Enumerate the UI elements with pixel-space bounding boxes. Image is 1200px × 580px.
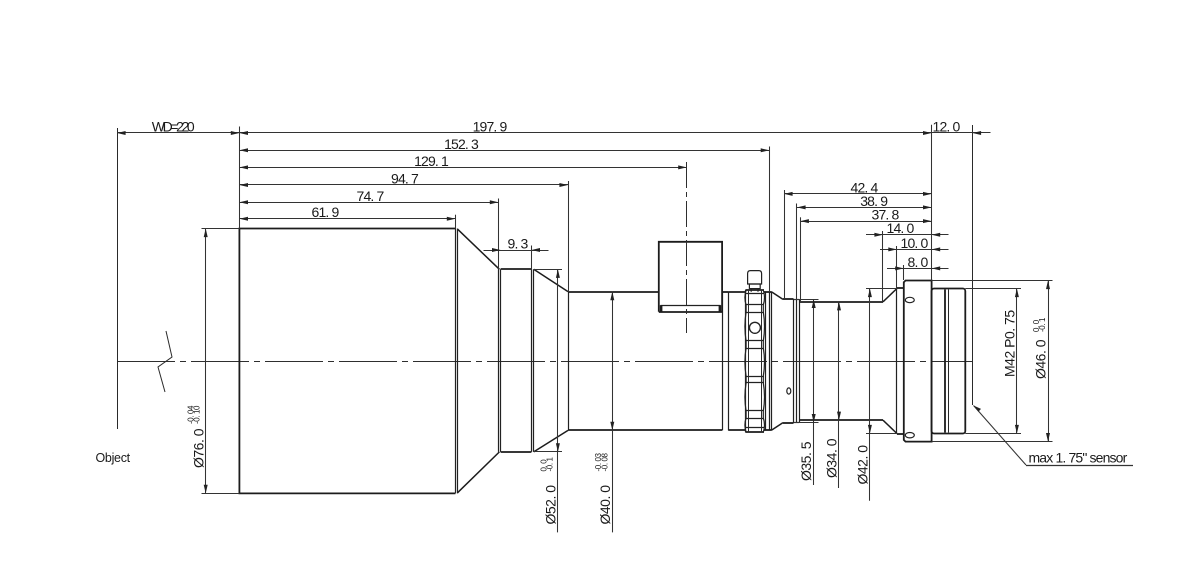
- svg-text:WD=220: WD=220: [152, 119, 195, 135]
- dimension O34 line: [838, 302, 840, 488]
- O35.5 section top edge: [783, 298, 794, 300]
- svg-text:61. 9: 61. 9: [312, 204, 340, 220]
- break squiggle on object line: [158, 331, 172, 392]
- extension line 152.3: [769, 147, 771, 292]
- svg-text:max 1. 75" sensor: max 1. 75" sensor: [1029, 450, 1128, 466]
- cone O52 to O40 bottom slant: [534, 430, 568, 452]
- extension line 9.3 right: [531, 246, 533, 270]
- M42 thread cylinder: [932, 289, 966, 434]
- svg-text:74. 7: 74. 7: [357, 188, 385, 204]
- svg-text:Ø42. 0: Ø42. 0: [854, 445, 870, 485]
- lock ring top/bottom edges: [794, 299, 800, 301]
- svg-text:Ø52. 0: Ø52. 0: [543, 485, 559, 525]
- O42 cylinder: [896, 289, 898, 434]
- mount flange O46: [904, 281, 932, 442]
- ring B vertical: [745, 290, 747, 432]
- M42 extension lines: [965, 288, 1021, 290]
- O35.5 section right vertical: [793, 299, 795, 422]
- svg-text:152. 3: 152. 3: [444, 136, 479, 152]
- svg-text:Object: Object: [96, 451, 131, 465]
- svg-text:M42 P0. 75: M42 P0. 75: [1001, 310, 1017, 377]
- svg-text:-0. 08: -0. 08: [601, 452, 610, 471]
- extension line 94.7: [568, 181, 570, 291]
- dimension 129.1: [239, 167, 686, 169]
- connector block bottom lip: [659, 311, 722, 313]
- sensor plane line: [972, 125, 974, 405]
- svg-text:10. 0: 10. 0: [901, 235, 929, 251]
- set screw hole on O34 barrel: [787, 388, 791, 394]
- extension line 42.4: [784, 190, 786, 299]
- extension line 61.9: [455, 215, 457, 229]
- dimension 12.0: [932, 132, 973, 134]
- dimension O52 line: [557, 269, 559, 532]
- M42 thread relief lines: [944, 290, 946, 433]
- centerline horizontal axis: [117, 361, 973, 363]
- dimension 8.0: [887, 268, 932, 270]
- ring bottom edge 722-745: [728, 429, 745, 431]
- extension lines O52: [534, 269, 562, 271]
- dimension WD=220: [117, 132, 239, 134]
- extension line 74.7: [498, 199, 500, 270]
- extension line 14.0: [882, 231, 884, 301]
- O52 section left edge pair: [498, 269, 500, 452]
- svg-text:197. 9: 197. 9: [473, 119, 508, 135]
- O42 extension lines: [866, 288, 897, 290]
- dimension 37.8: [800, 221, 931, 223]
- chamfer O34 to O42 bottom: [883, 420, 897, 433]
- cone O52 to O40 top slant: [534, 269, 568, 291]
- O40 barrel start vertical: [568, 292, 570, 431]
- dimension 38.9: [797, 207, 932, 209]
- O40 barrel top edge: [568, 291, 659, 293]
- flange hole top: [905, 297, 914, 302]
- svg-text:94. 7: 94. 7: [391, 171, 419, 187]
- dimension O35.5 line: [813, 299, 815, 485]
- dimension 94.7: [239, 184, 568, 186]
- dimension O40 line: [612, 292, 614, 533]
- dimension 9.3: [484, 250, 549, 252]
- svg-text:-0. 1: -0. 1: [546, 457, 555, 472]
- O40 barrel end face: [722, 292, 724, 431]
- spacer top edge: [764, 291, 772, 293]
- knurled focus ring: [745, 289, 764, 291]
- O35.5 section bottom edge: [783, 422, 794, 424]
- O40 barrel top edge right of block: [722, 291, 728, 293]
- svg-text:Ø34. 0: Ø34. 0: [824, 438, 840, 478]
- svg-text:9. 3: 9. 3: [508, 236, 529, 252]
- spacer bottom edge: [764, 429, 772, 431]
- dimension 74.7: [239, 202, 498, 204]
- dimension 14.0: [866, 234, 932, 236]
- flange hole bottom: [905, 433, 914, 438]
- chamfer O34 to O42 top: [883, 289, 897, 302]
- extension line left face: [239, 127, 241, 229]
- O52 section bottom edge: [501, 451, 532, 453]
- connector block outline: [659, 242, 722, 312]
- connector block centerline (129.1 reference): [686, 162, 688, 333]
- svg-text:14. 0: 14. 0: [887, 220, 915, 236]
- O35.5 extension lines: [794, 299, 819, 301]
- svg-text:Ø46. 0: Ø46. 0: [1033, 339, 1049, 379]
- vertical at 771.6: [771, 292, 773, 431]
- dimension 61.9: [239, 218, 455, 220]
- spacer ring A vertical: [728, 292, 730, 431]
- dimension O76 line: [205, 229, 207, 494]
- svg-text:Ø76. 0: Ø76. 0: [191, 428, 207, 468]
- front barrel O76 outline: [239, 229, 455, 494]
- extension lines O76: [202, 228, 240, 230]
- extension line 10.0: [896, 246, 898, 288]
- svg-text:129. 1: 129. 1: [414, 153, 449, 169]
- dimension O46 line: [1048, 281, 1050, 442]
- screw head circle on knurled ring: [749, 322, 760, 333]
- svg-text:12. 0: 12. 0: [933, 119, 961, 135]
- O52 section top edge: [501, 268, 532, 270]
- svg-text:-0. 10: -0. 10: [193, 405, 202, 424]
- dimension O42 line: [869, 289, 871, 501]
- O34 barrel bottom edge: [799, 419, 883, 421]
- cone O76 to O52 top slant: [458, 229, 500, 269]
- O40 barrel bottom edge: [568, 429, 722, 431]
- lock ring verticals: [796, 300, 798, 422]
- thumbscrew on top of knurled ring: [748, 271, 762, 284]
- sensor leader line: [974, 406, 1027, 466]
- chamfer up to O35.5 bottom: [772, 423, 783, 430]
- dimension M42 line: [1016, 289, 1018, 434]
- dimension 197.9: [239, 132, 931, 134]
- svg-text:-0. 1: -0. 1: [1038, 317, 1047, 332]
- ring top edge 722-745: [728, 291, 745, 293]
- dimension 10.0: [880, 249, 932, 251]
- extension line 8.0: [903, 265, 905, 280]
- svg-text:Ø35. 5: Ø35. 5: [798, 441, 814, 481]
- front barrel right face double line: [455, 229, 457, 494]
- extension line 37.8: [800, 217, 802, 301]
- spacer ring verticals after knurled ring: [765, 292, 767, 431]
- chamfer down to O35.5 top: [772, 292, 783, 299]
- O46 extension lines: [932, 280, 1053, 282]
- object plane line: [117, 128, 119, 429]
- svg-text:8. 0: 8. 0: [908, 254, 929, 270]
- O52 section right edge pair: [531, 269, 533, 452]
- svg-text:Ø40. 0: Ø40. 0: [597, 485, 613, 525]
- dimension 152.3: [239, 150, 769, 152]
- dimension 42.4: [784, 193, 932, 195]
- extension line 38.9: [796, 204, 798, 301]
- O34 barrel top edge: [799, 301, 883, 303]
- cone O76 to O52 bottom slant: [458, 452, 500, 493]
- extension line flange face up: [931, 125, 933, 281]
